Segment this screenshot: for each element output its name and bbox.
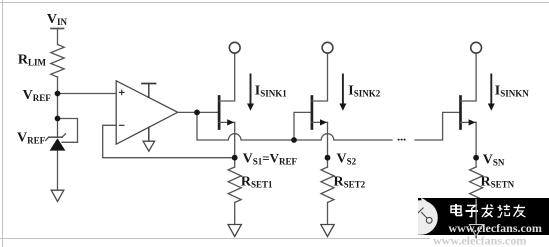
svg-text:RSET2: RSET2 bbox=[334, 175, 366, 190]
svg-text:VSN: VSN bbox=[483, 153, 505, 168]
svg-text:RSET1: RSET1 bbox=[241, 175, 273, 190]
svg-text:VREF: VREF bbox=[23, 88, 52, 103]
svg-text:RLIM: RLIM bbox=[18, 52, 47, 67]
svg-text:VS1=VREF: VS1=VREF bbox=[243, 150, 298, 166]
svg-text:RSETN: RSETN bbox=[481, 175, 515, 190]
svg-text:VREF: VREF bbox=[17, 130, 46, 145]
svg-text:VIN: VIN bbox=[47, 12, 68, 27]
svg-text:www.elecfans.com: www.elecfans.com bbox=[433, 234, 526, 247]
svg-text:ISINKN: ISINKN bbox=[495, 84, 529, 99]
svg-text:ISINK2: ISINK2 bbox=[348, 84, 380, 99]
svg-text:VS2: VS2 bbox=[337, 151, 357, 166]
svg-text:ISINK1: ISINK1 bbox=[255, 84, 287, 99]
